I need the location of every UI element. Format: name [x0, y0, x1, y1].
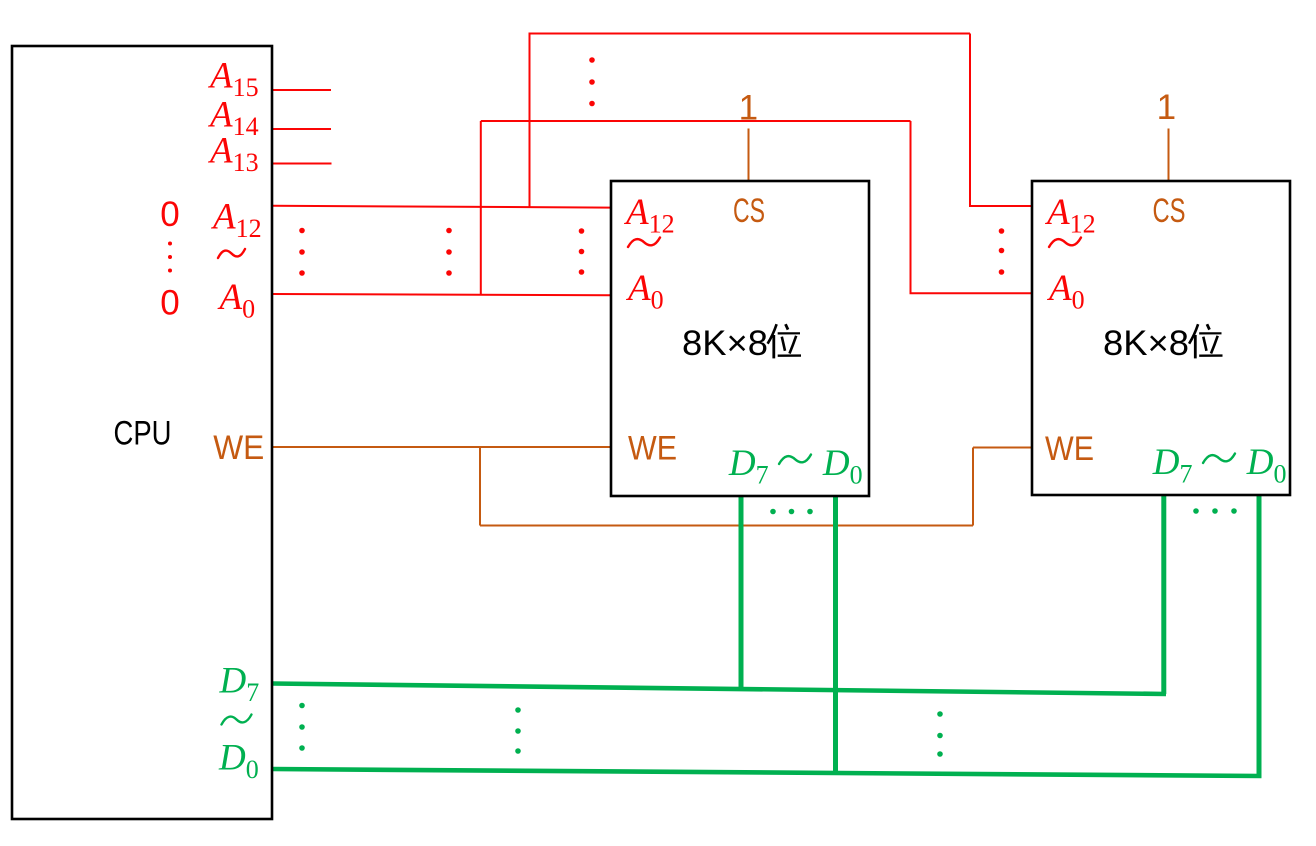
ellipsis dots green column x940	[937, 711, 943, 757]
tilde chip2 address	[1049, 238, 1081, 248]
svg-text:0: 0	[160, 195, 179, 234]
wire chip1 D0 vertical	[833, 497, 838, 774]
ellipsis dots red column x1001	[999, 228, 1005, 275]
svg-text:8K×8: 8K×8	[682, 323, 768, 363]
wire chip2 D0 vertical	[1257, 496, 1262, 776]
ellipsis dots red column top x592	[589, 57, 595, 106]
wire CS1 from node 1	[748, 129, 750, 182]
svg-text:1: 1	[739, 89, 758, 128]
tilde CPU data	[222, 715, 252, 725]
svg-text:WE: WE	[213, 429, 264, 467]
wire A0 right vertical at x910	[910, 121, 912, 293]
wire A0 mid horizontal	[481, 120, 911, 122]
tilde chip2 data	[1203, 454, 1235, 464]
svg-text:WE: WE	[628, 430, 677, 468]
ellipsis dots green row below chip2	[1193, 508, 1237, 514]
wire chip1 D7 vertical	[739, 497, 744, 691]
wire WE branch vertical at x480	[479, 447, 481, 526]
ellipsis dots red column x449	[446, 228, 452, 276]
wire D7 data bus	[272, 684, 1166, 695]
svg-text:1: 1	[1157, 88, 1176, 127]
wire A15 stub	[272, 89, 331, 91]
tilde chip1 data	[779, 455, 811, 465]
wire A13 stub	[272, 163, 332, 165]
wire WE up vertical at x973	[972, 448, 974, 526]
svg-text:CS: CS	[1153, 192, 1186, 230]
wire A12 CPU to chip1	[272, 206, 611, 208]
ellipsis dots green column x518	[515, 707, 521, 754]
wire A12 branch vertical at x530	[529, 34, 531, 207]
ellipsis dots red column x302	[299, 228, 305, 276]
wire A0 CPU to chip1	[272, 294, 611, 295]
wire WE CPU to chip1	[272, 446, 611, 448]
ellipsis dots CPU 0..0 column	[168, 242, 172, 273]
memory chip 2 box 8Kx8	[1032, 181, 1290, 495]
wire CS2 from node 1	[1168, 129, 1170, 181]
ellipsis dots green column x302	[299, 703, 305, 751]
ellipsis dots green row below chip1	[770, 509, 813, 515]
svg-text:CS: CS	[733, 192, 765, 230]
wire A12 right vertical at x970	[969, 34, 971, 207]
wire A12 top horizontal	[529, 33, 971, 35]
wire D0 data bus	[272, 769, 1262, 776]
wire WE bottom horizontal	[480, 525, 973, 527]
svg-text:0: 0	[160, 284, 179, 323]
tilde chip1 address	[628, 238, 660, 248]
memory chip 1 box 8Kx8	[611, 181, 869, 496]
wire A14 stub	[272, 128, 331, 130]
wire A0 into chip2	[910, 292, 1033, 294]
CPU box	[12, 46, 272, 819]
ellipsis dots red column x581	[579, 228, 585, 275]
svg-text:8K×8: 8K×8	[1103, 323, 1189, 363]
svg-text:CPU: CPU	[114, 415, 172, 453]
wire A12 into chip2	[969, 205, 1032, 207]
wire WE into chip2	[973, 447, 1032, 449]
tilde CPU address	[218, 249, 245, 258]
svg-text:WE: WE	[1045, 430, 1094, 468]
wire A0 branch vertical at x481	[480, 121, 482, 295]
wire chip2 D7 vertical	[1161, 496, 1166, 694]
chip1 CJK glyph wei	[768, 324, 801, 358]
chip2 CJK glyph wei	[1189, 324, 1222, 358]
